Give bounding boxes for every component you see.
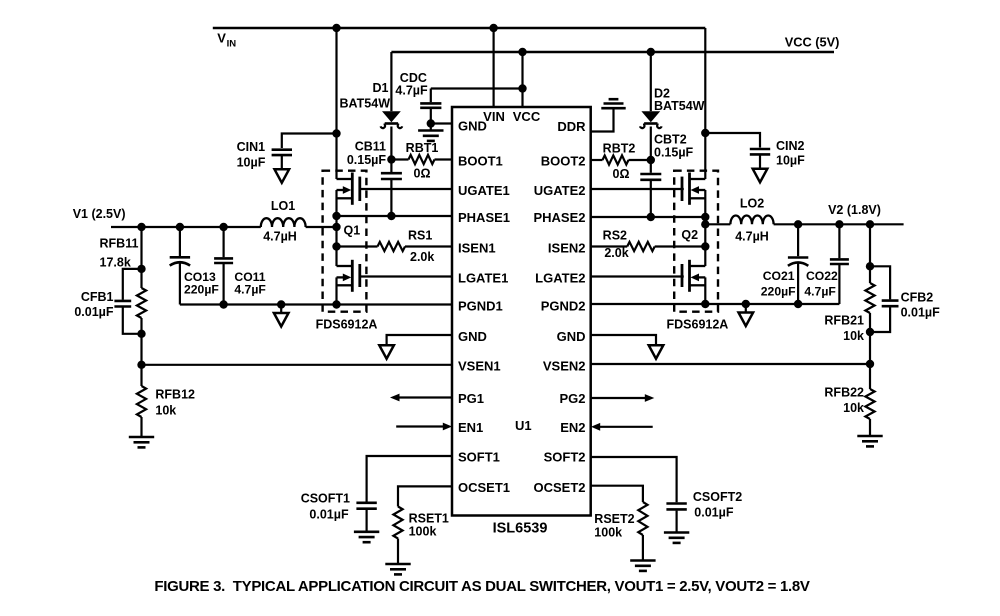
junction CIN1 tap: [332, 129, 340, 137]
svg-text:0.15µF: 0.15µF: [654, 146, 694, 160]
svg-text:RSET2: RSET2: [594, 512, 634, 526]
junction PGND ground tap: [277, 300, 285, 308]
ground CDC: [430, 124, 432, 131]
junction VIN stem on VIN rail: [489, 24, 497, 32]
ground RSET1: [385, 563, 410, 566]
junction VIN rail / Q1 branch: [332, 24, 340, 32]
wire CIN2 branch: [705, 133, 760, 148]
inductor LO1 4.7uH: [261, 218, 306, 227]
resistor RSET1 100k: [393, 507, 402, 539]
svg-text:RFB22: RFB22: [824, 386, 864, 400]
svg-text:CFB1: CFB1: [81, 290, 114, 304]
svg-text:0.15µF: 0.15µF: [347, 153, 387, 167]
svg-text:10µF: 10µF: [776, 153, 805, 167]
capacitor CO11 4.7uF: [223, 227, 225, 257]
junction CIN2 tap: [701, 129, 709, 137]
wire Q1 phase bus: [335, 190, 337, 266]
wire DDR pin: [591, 108, 614, 131]
svg-text:FDS6912A: FDS6912A: [316, 317, 378, 331]
junction CFB2 bottom: [866, 328, 874, 336]
wire EN2 with arrow: [600, 426, 653, 428]
wire PGND2 pin: [591, 303, 840, 305]
capacitor CDC: [430, 89, 432, 103]
junction RFB21 tap on V2: [866, 220, 874, 228]
junction CO21 / PGND wire: [794, 300, 802, 308]
svg-text:10k: 10k: [843, 329, 864, 343]
svg-text:PHASE1: PHASE1: [458, 210, 510, 225]
svg-text:BOOT2: BOOT2: [541, 154, 586, 169]
svg-text:V1 (2.5V): V1 (2.5V): [73, 207, 126, 221]
wire SOFT1 pin: [367, 456, 452, 502]
svg-text:220µF: 220µF: [761, 285, 796, 299]
junction CDC / GND pin: [427, 119, 435, 127]
junction LO2 tap: [701, 220, 709, 228]
svg-text:100k: 100k: [409, 525, 437, 539]
wire VIN rail: [213, 27, 706, 30]
junction CB11 / PHASE1: [387, 212, 395, 220]
svg-text:FIGURE 3. TYPICAL APPLICATION: FIGURE 3. TYPICAL APPLICATION CIRCUIT AS…: [154, 578, 810, 595]
wire PHASE2 pin: [591, 216, 706, 218]
svg-text:4.7µH: 4.7µH: [735, 230, 769, 244]
svg-text:CIN2: CIN2: [776, 139, 805, 153]
svg-text:LGATE2: LGATE2: [535, 270, 585, 285]
svg-text:SOFT2: SOFT2: [544, 450, 586, 465]
resistor RFB22 10k: [869, 364, 871, 389]
junction RS2 tap: [701, 242, 709, 250]
svg-text:CB11: CB11: [355, 140, 386, 154]
svg-text:FDS6912A: FDS6912A: [667, 317, 729, 331]
svg-text:VSEN2: VSEN2: [543, 358, 586, 373]
svg-text:100k: 100k: [594, 526, 622, 540]
wire OCSET1 pin: [398, 486, 452, 506]
wire PG2 with arrow: [591, 397, 645, 399]
resistor RBT2 0 ohm: [591, 159, 603, 161]
junction RS1 tap: [332, 242, 340, 250]
svg-text:UGATE2: UGATE2: [534, 183, 586, 198]
svg-text:GND: GND: [458, 118, 487, 133]
svg-text:VCC (5V): VCC (5V): [785, 35, 840, 50]
svg-text:BAT54W: BAT54W: [340, 97, 391, 111]
svg-text:Q2: Q2: [681, 228, 698, 242]
svg-text:ISL6539: ISL6539: [493, 521, 548, 537]
svg-text:220µF: 220µF: [184, 282, 219, 296]
junction CDC wire on VCC stem: [518, 84, 526, 92]
capacitor CSOFT1 0.01uF: [356, 501, 376, 504]
wire VIN pin stem: [493, 28, 495, 107]
svg-text:PGND1: PGND1: [458, 298, 503, 313]
capacitor CFB1 0.01uF: [123, 269, 142, 300]
junction D2 on VCC rail: [647, 48, 655, 56]
wire VSEN2 pin: [869, 332, 871, 364]
svg-text:PG1: PG1: [458, 391, 484, 406]
junction CO11 / PGND wire: [219, 300, 227, 308]
svg-text:RSET1: RSET1: [409, 512, 449, 526]
capacitor CO22 4.7uF: [838, 224, 840, 258]
wire Q2 source to PGND: [704, 277, 706, 304]
svg-text:CSOFT2: CSOFT2: [693, 490, 742, 504]
svg-text:ISEN1: ISEN1: [458, 240, 496, 255]
svg-text:RFB21: RFB21: [824, 314, 864, 328]
transistor Q2 lower FET: [690, 265, 706, 267]
capacitor CB11: [390, 160, 392, 173]
wire VCC pin stem: [521, 52, 523, 107]
svg-text:PG2: PG2: [559, 391, 585, 406]
svg-text:CIN1: CIN1: [237, 140, 266, 154]
svg-text:VSEN1: VSEN1: [458, 358, 501, 373]
wire VSEN1 pin: [140, 334, 142, 365]
ground RSET2: [630, 559, 655, 562]
wire LGATE2 pin: [591, 275, 684, 277]
op-amp U1 ISL6539 controller IC body: [452, 107, 591, 516]
wire VIN to Q2 drain: [704, 28, 706, 179]
svg-text:0.01µF: 0.01µF: [74, 305, 114, 319]
junction VSEN2 tap: [866, 360, 874, 368]
junction LO1 tap: [332, 223, 340, 231]
wire UGATE1 pin: [360, 188, 452, 190]
junction CFB1 top: [137, 265, 145, 273]
svg-text:2.0k: 2.0k: [410, 250, 434, 264]
resistor RBT1 0 ohm: [391, 158, 408, 160]
diode D1 BAT54W: [390, 52, 392, 111]
svg-text:D1: D1: [373, 81, 389, 95]
wire GND2 mid pin: [591, 335, 656, 345]
resistor RFB11 17.8k: [140, 227, 142, 288]
svg-text:DDR: DDR: [557, 119, 586, 134]
svg-text:SOFT1: SOFT1: [458, 450, 500, 465]
transistor Q2 upper FET: [690, 178, 706, 180]
junction CO21 tap: [794, 220, 802, 228]
Q1 package dashed box FDS6912A: [323, 171, 367, 312]
svg-text:2.0k: 2.0k: [604, 246, 628, 260]
svg-text:LGATE1: LGATE1: [458, 270, 508, 285]
svg-text:RFB12: RFB12: [155, 388, 195, 402]
svg-text:10k: 10k: [843, 401, 864, 415]
capacitor CIN2: [750, 148, 770, 151]
wire SOFT2 pin: [591, 457, 677, 502]
svg-text:OCSET1: OCSET1: [458, 480, 510, 495]
svg-text:RBT1: RBT1: [406, 141, 439, 155]
capacitor CSOFT2 0.01uF: [666, 502, 686, 505]
svg-text:4.7µH: 4.7µH: [263, 230, 297, 244]
svg-text:V: V: [217, 31, 226, 46]
svg-text:0.01µF: 0.01µF: [694, 506, 734, 520]
wire VIN to Q1 drain: [335, 28, 337, 179]
junction PGND2 ground tap: [742, 300, 750, 308]
svg-text:VCC: VCC: [513, 109, 541, 124]
Q2 package dashed box FDS6912A: [674, 171, 718, 312]
junction CO11 tap: [219, 223, 227, 231]
junction PHASE1 node: [332, 212, 340, 220]
svg-text:CO22: CO22: [806, 269, 838, 283]
svg-text:IN: IN: [227, 38, 237, 49]
junction VSEN1 tap: [137, 361, 145, 369]
svg-text:U1: U1: [515, 418, 532, 433]
capacitor CO13 220uF: [179, 227, 181, 256]
diode D2 BAT54W: [650, 52, 652, 111]
transistor Q1 upper FET: [337, 178, 353, 180]
svg-text:LO2: LO2: [740, 197, 764, 211]
svg-text:GND: GND: [557, 329, 586, 344]
wire VCC rail: [391, 51, 834, 54]
resistor RFB12 10k: [140, 365, 142, 386]
svg-text:ISEN2: ISEN2: [548, 240, 586, 255]
resistor RFB21 10k: [869, 224, 871, 283]
svg-text:BAT54W: BAT54W: [654, 99, 705, 113]
junction Q1 source / PGND1: [332, 300, 340, 308]
capacitor CFB2 0.01uF: [870, 266, 890, 299]
svg-text:0Ω: 0Ω: [414, 167, 431, 181]
wire Q1 source to PGND: [335, 277, 337, 304]
svg-text:0.01µF: 0.01µF: [901, 306, 941, 320]
junction CBT2 / PHASE2: [647, 213, 655, 221]
svg-text:17.8k: 17.8k: [100, 256, 131, 270]
svg-text:10µF: 10µF: [237, 155, 266, 169]
junction VCC stem on VCC rail: [518, 48, 526, 56]
svg-text:RFB11: RFB11: [100, 237, 139, 251]
svg-text:CBT2: CBT2: [654, 133, 687, 147]
svg-text:LO1: LO1: [271, 199, 295, 213]
svg-text:RS2: RS2: [603, 229, 627, 243]
wire Q2 phase bus: [704, 190, 706, 266]
wire EN1 with arrow: [396, 425, 443, 427]
transistor Q1 lower FET: [337, 265, 353, 267]
ground DDR (inverted): [601, 107, 625, 110]
resistor RS2 2.0k: [591, 245, 628, 247]
ground CSOFT1: [354, 530, 379, 533]
capacitor CIN1: [272, 148, 292, 151]
capacitor CO21 220uF: [797, 224, 799, 256]
svg-text:OCSET2: OCSET2: [533, 480, 585, 495]
wire OCSET2 pin: [591, 486, 643, 502]
svg-text:CO21: CO21: [763, 269, 795, 283]
junction Q2 source / PGND2: [701, 300, 709, 308]
resistor RSET2 100k: [638, 502, 647, 535]
capacitor CBT2: [650, 160, 652, 173]
ground PGND2: [745, 304, 747, 313]
svg-text:4.7µF: 4.7µF: [395, 83, 428, 97]
svg-text:GND: GND: [458, 329, 487, 344]
wire UGATE2 pin: [591, 188, 684, 190]
resistor RS1 2.0k: [337, 245, 378, 247]
svg-text:PHASE2: PHASE2: [533, 210, 585, 225]
junction PHASE2 node: [701, 213, 709, 221]
junction CFB2 top: [866, 262, 874, 270]
svg-text:10k: 10k: [155, 404, 176, 418]
svg-text:CSOFT1: CSOFT1: [301, 492, 350, 506]
wire PHASE1 pin: [337, 215, 453, 217]
svg-text:4.7µF: 4.7µF: [234, 282, 265, 296]
svg-text:Q1: Q1: [344, 224, 361, 238]
wire V1 output rail: [111, 226, 261, 228]
wire CIN1 branch: [282, 134, 337, 149]
junction D1 / BOOT1: [387, 155, 395, 163]
svg-text:0.01µF: 0.01µF: [309, 508, 349, 522]
svg-text:PGND2: PGND2: [541, 298, 586, 313]
wire PGND1 pin: [180, 303, 452, 305]
wire CDC to VCC: [431, 87, 523, 89]
svg-text:0Ω: 0Ω: [613, 167, 630, 181]
svg-text:CFB2: CFB2: [901, 291, 934, 305]
ground CIN1: [275, 169, 290, 183]
svg-text:4.7µF: 4.7µF: [804, 285, 835, 299]
junction CO13 tap: [176, 223, 184, 231]
ground RFB12: [129, 436, 154, 439]
svg-text:RS1: RS1: [408, 229, 432, 243]
svg-text:V2 (1.8V): V2 (1.8V): [828, 203, 881, 217]
inductor LO2 4.7uH: [705, 223, 730, 225]
wire LGATE1 pin: [360, 275, 452, 277]
svg-text:UGATE1: UGATE1: [458, 183, 510, 198]
svg-text:EN2: EN2: [560, 420, 585, 435]
svg-text:RBT2: RBT2: [603, 142, 636, 156]
junction CFB1 bottom: [137, 330, 145, 338]
ground CIN2: [753, 169, 768, 183]
svg-text:EN1: EN1: [458, 420, 483, 435]
ground PGND1: [280, 305, 282, 314]
junction D2 / BOOT2: [647, 156, 655, 164]
ground GND2 mid: [649, 345, 664, 359]
wire GND mid pin: [387, 335, 452, 345]
ground RFB22: [857, 435, 882, 438]
svg-text:BOOT1: BOOT1: [458, 154, 503, 169]
wire GND1 pin: [431, 122, 452, 124]
junction RFB11 tap on V1: [137, 223, 145, 231]
junction CO22 tap: [835, 220, 843, 228]
ground GND mid: [379, 345, 394, 359]
wire PG1 with arrow: [399, 396, 452, 398]
ground CSOFT2: [664, 531, 689, 534]
